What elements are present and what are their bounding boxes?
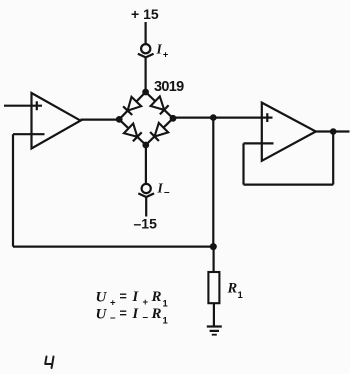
terminal I+ (current source circle)	[141, 44, 150, 53]
wire right bridge node to op-amp U2	[173, 116, 262, 118]
svg-text:3019: 3019	[154, 79, 184, 95]
wire	[146, 92, 173, 118]
wire R1 to ground	[213, 303, 215, 326]
svg-text:–: –	[110, 313, 116, 324]
node left of bridge	[116, 116, 123, 123]
node junction at R1 column	[210, 114, 217, 121]
svg-text:I: I	[157, 181, 164, 196]
svg-text:R: R	[227, 281, 238, 297]
wire	[145, 57, 147, 93]
node U2 output junction	[330, 128, 337, 135]
diode D2 (top to right)	[151, 96, 169, 114]
wire inverting input U2	[244, 142, 274, 144]
wire U1 feedback horizontal	[13, 246, 213, 248]
svg-text:+: +	[143, 297, 149, 308]
ground	[207, 327, 222, 335]
svg-text:+: +	[163, 50, 169, 61]
svg-text:=: =	[120, 290, 127, 304]
wire junction to R1	[213, 247, 215, 272]
wire	[145, 196, 147, 216]
wire U1 feedback vertical	[12, 134, 14, 246]
wire	[146, 118, 173, 145]
svg-text:–15: –15	[134, 216, 158, 232]
wire U2 feedback down	[242, 143, 244, 184]
svg-text:R: R	[151, 306, 162, 322]
wire bottom of bridge to I- terminal	[145, 145, 147, 184]
svg-text:1: 1	[163, 299, 169, 310]
wire U2 feedback up to output	[332, 132, 334, 185]
diode D4 (right to bottom)	[150, 123, 168, 141]
node top of bridge	[142, 89, 149, 96]
op-amp U1 (left)	[32, 93, 81, 149]
svg-text:1: 1	[238, 290, 244, 301]
wire vertical to R1 junction	[212, 118, 214, 247]
arrowhead I+ (down)	[138, 54, 154, 58]
node right of bridge	[170, 115, 177, 122]
svg-text:I: I	[156, 42, 163, 57]
wire	[119, 119, 146, 145]
svg-text:–: –	[164, 187, 170, 198]
terminal I- (current source circle)	[142, 184, 151, 193]
equation U+ = I+ R1	[96, 289, 169, 310]
node bottom of bridge	[142, 142, 149, 149]
wire noninverting input U1	[4, 105, 42, 107]
svg-text:+ 15: + 15	[131, 6, 159, 22]
svg-text:R: R	[151, 289, 162, 305]
wire U2 feedback horizontal	[244, 184, 334, 186]
arrowhead I- (down)	[138, 193, 154, 197]
wire inverting input U1	[13, 133, 45, 135]
svg-text:–: –	[143, 312, 149, 323]
wire U2 output	[316, 130, 350, 132]
svg-text:U: U	[96, 307, 108, 323]
svg-text:1: 1	[163, 316, 169, 327]
equation U- = I- R1	[96, 306, 169, 327]
wire	[145, 22, 147, 44]
figure label ts (Cyrillic)	[45, 357, 53, 369]
diode D1 (top to left)	[123, 97, 141, 115]
wire	[119, 92, 145, 119]
wire U1 output to left bridge node	[81, 118, 120, 120]
diode D3 (left to bottom)	[124, 124, 142, 142]
svg-text:U: U	[96, 290, 108, 306]
resistor R1	[208, 272, 219, 303]
node junction feedback / R1	[210, 243, 217, 250]
op-amp U2 (right)	[262, 103, 316, 161]
svg-text:+: +	[110, 298, 116, 309]
svg-text:=: =	[120, 307, 127, 321]
